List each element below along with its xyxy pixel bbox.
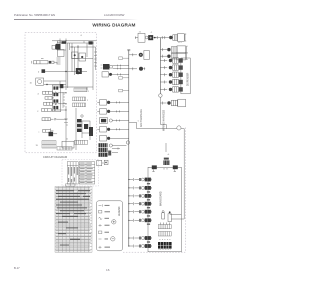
tick marks right column (94, 52, 97, 66)
dispenser row connector (160, 58, 182, 63)
svg-text:x1: x1 (168, 154, 170, 156)
legend item 2 (99, 210, 102, 213)
bus stub b (119, 77, 123, 80)
motor M2 (102, 72, 109, 77)
igniter row: outline box (178, 34, 185, 42)
relay K3 (79, 53, 86, 61)
hatched block A (158, 225, 171, 229)
igniter row: circle junction (145, 36, 148, 39)
dot marks (160, 239, 171, 241)
wire zigzag to main run (160, 103, 166, 129)
load row connector (160, 46, 187, 53)
tall dispenser box (181, 58, 190, 94)
terminal block black (158, 242, 172, 249)
top small bars (62, 41, 67, 44)
connector CN2 pin ladder (73, 97, 86, 101)
board connector row CN1 (128, 178, 151, 182)
component R4 row (97, 127, 129, 132)
board top connector blobs (152, 165, 157, 169)
dense cluster third row (99, 153, 108, 157)
dashed border bottom (123, 251, 185, 253)
wire horizontals top (44, 41, 97, 90)
connector table left block (67, 162, 78, 184)
legend item 1 (99, 204, 103, 206)
svg-text:2: 2 (87, 100, 88, 102)
wire vertical buses top (57, 39, 96, 91)
small box component (97, 160, 102, 166)
svg-text:AIR PRESSURE: AIR PRESSURE (140, 109, 143, 127)
capacitor C1 (60, 84, 64, 88)
left row L1b small (45, 97, 52, 100)
component R2 row (97, 109, 129, 114)
svg-text:21: 21 (139, 31, 141, 33)
component R5 row (100, 136, 129, 141)
svg-text:c: c (39, 132, 40, 134)
valve row D (160, 97, 185, 106)
board connector row CN5 (128, 210, 151, 214)
svg-text:Publication No. 5995549617 EN: Publication No. 5995549617 EN (14, 13, 55, 17)
bus circle node (126, 141, 129, 144)
circled symbol E (112, 220, 116, 224)
main vertical bus (128, 50, 130, 247)
igniter row: connector circle (169, 36, 172, 39)
wire bundle ticks (63, 92, 65, 108)
aux box (52, 45, 55, 49)
circled symbol G (111, 237, 115, 241)
svg-text:WIRING DIAGRAM: WIRING DIAGRAM (92, 22, 135, 27)
board connector row CN4 (128, 202, 151, 206)
hatched grid block G1 (42, 141, 56, 148)
dark blob top wire (89, 41, 93, 44)
legend item 3 (99, 217, 103, 220)
legend item 6 (99, 238, 102, 240)
thermostat TH1 (49, 132, 54, 136)
dispenser row connector (160, 65, 182, 70)
main horizontal wire (137, 129, 185, 219)
legend item 7 (99, 246, 102, 249)
svg-text:DISPENSER: DISPENSER (187, 72, 189, 86)
svg-text:16: 16 (106, 268, 110, 272)
junction dots top (65, 40, 66, 41)
relay K1 (58, 50, 65, 57)
wiring code table (55, 184, 92, 252)
svg-text:MAIN BOARD: MAIN BOARD (160, 191, 163, 206)
dashed frame around connector table (62, 160, 99, 186)
connector CN4 pin ladder (75, 140, 88, 144)
connector above board (164, 158, 169, 160)
fuse F1 wire (170, 213, 182, 215)
sensor row F (129, 67, 145, 71)
right bus (159, 38, 161, 94)
inline connector J1 (34, 61, 49, 64)
legend item 4 (99, 224, 102, 226)
hatched block B (158, 232, 171, 237)
board edge pin marks (147, 184, 150, 242)
board connector row CN3 (128, 194, 151, 198)
bottom connector row (57, 147, 72, 150)
small marks (64, 119, 68, 125)
igniter row: wire (153, 36, 169, 39)
bus stub a (119, 57, 123, 60)
igniter row: stub tick (135, 36, 138, 39)
svg-text:LGC20XXXWW: LGC20XXXWW (104, 13, 125, 17)
dispenser row connector (160, 79, 182, 84)
board connector row CN7 (128, 236, 151, 240)
svg-text:B-17: B-17 (14, 266, 20, 270)
circle node loop (177, 126, 181, 130)
left row L2 switch (44, 102, 53, 105)
main control board (148, 167, 181, 252)
connector CN3 pin ladder (73, 103, 86, 107)
board inner bottom (158, 211, 181, 250)
central cluster U3 (81, 115, 83, 117)
fan row E (129, 51, 149, 60)
fuse F1 (168, 214, 171, 222)
svg-text:5: 5 (138, 121, 139, 123)
board connector row CN6 (128, 218, 151, 222)
fuse F2 (162, 213, 165, 219)
svg-text:LEGEND: LEGEND (119, 206, 121, 216)
bus stub c (119, 89, 123, 92)
dashed box circuit diagram (25, 33, 97, 153)
wire branch from bus (129, 122, 137, 128)
dense cluster bottom (99, 143, 127, 152)
dispenser row connector (160, 72, 182, 77)
dashed border right (184, 128, 186, 253)
dispenser row connector (160, 87, 182, 92)
svg-text:11: 11 (66, 139, 68, 141)
legend item 5 (99, 231, 102, 234)
pin ladder small (57, 58, 61, 64)
board connector row CN8 (128, 244, 151, 248)
connector table right block (79, 162, 94, 184)
left row L4 switch (42, 118, 51, 121)
connector P2 (76, 68, 82, 74)
load row connector (160, 53, 187, 60)
component box U2 (52, 85, 60, 112)
svg-text:CIRCUIT DIAGRAM: CIRCUIT DIAGRAM (43, 155, 68, 159)
board connector row CN2 (128, 186, 151, 190)
igniter row: bar box (173, 35, 178, 41)
component R1 row (97, 100, 129, 105)
igniter row: box (138, 33, 145, 42)
wire to connector above board (165, 143, 167, 152)
circle node right bus (159, 94, 163, 98)
switch S1 (72, 52, 79, 59)
svg-text:WIRING HARNESS: WIRING HARNESS (162, 109, 165, 131)
transformer T1 (56, 44, 61, 50)
component R3 row (100, 118, 129, 124)
igniter row: dark component (148, 35, 153, 40)
svg-text:1: 1 (88, 91, 89, 93)
connector CN1 pin ladder (74, 88, 87, 92)
board left connector rows (128, 178, 151, 248)
motor M1 (101, 65, 103, 68)
box U4 (62, 141, 74, 148)
svg-text:-1: -1 (151, 32, 153, 34)
